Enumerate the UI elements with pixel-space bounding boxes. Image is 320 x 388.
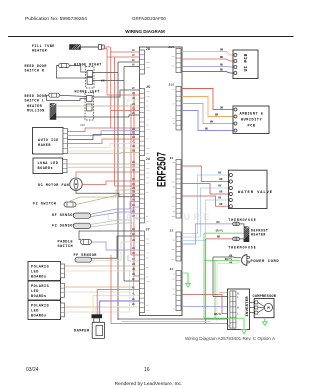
svg-text:BU: BU — [132, 298, 136, 301]
svg-text:WH: WH — [132, 268, 136, 271]
svg-text:LED: LED — [31, 290, 39, 294]
svg-text:M: M — [267, 307, 269, 311]
svg-text:T12: T12 — [172, 195, 175, 198]
svg-text:BR: BR — [215, 113, 219, 116]
svg-text:WH: WH — [132, 64, 136, 67]
svg-text:T12: T12 — [146, 309, 149, 312]
svg-text:LED: LED — [31, 310, 39, 314]
svg-text:WIRING DIAGRAM: WIRING DIAGRAM — [125, 29, 165, 34]
svg-text:OR: OR — [220, 48, 224, 51]
svg-text:GR/YL: GR/YL — [216, 230, 224, 233]
svg-text:16: 16 — [144, 367, 150, 373]
svg-text:BOARDs: BOARDs — [31, 295, 47, 299]
svg-text:RD: RD — [132, 54, 136, 57]
svg-text:YL: YL — [132, 141, 136, 144]
svg-text:MAKER: MAKER — [38, 144, 51, 148]
svg-text:RD: RD — [132, 178, 136, 181]
svg-text:BR: BR — [219, 178, 223, 181]
svg-text:FZ SENSOR: FZ SENSOR — [52, 224, 76, 228]
svg-text:BK: BK — [132, 194, 136, 197]
svg-text:GY: GY — [132, 215, 136, 218]
svg-text:POLARIS: POLARIS — [31, 305, 49, 309]
svg-text:J8: J8 — [146, 47, 150, 51]
svg-text:Wiring Diagram A25783401 Rev.: Wiring Diagram A25783401 Rev. C Option A — [185, 336, 276, 341]
svg-text:DF SENSOR: DF SENSOR — [52, 214, 76, 218]
svg-text:BR: BR — [217, 236, 221, 239]
svg-text:J1: J1 — [170, 268, 174, 271]
svg-text:RD: RD — [132, 273, 136, 276]
svg-text:LED: LED — [31, 271, 39, 275]
svg-text:WH: WH — [132, 239, 136, 242]
svg-text:ERF2507: ERF2507 — [155, 152, 169, 187]
svg-text:BN: BN — [132, 263, 136, 266]
svg-text:BN: BN — [132, 103, 136, 106]
svg-text:RD: RD — [132, 136, 136, 139]
svg-text:WATER VALVE: WATER VALVE — [238, 191, 273, 195]
svg-text:BU: BU — [218, 172, 222, 175]
svg-text:BU: BU — [218, 197, 222, 200]
svg-text:BK: BK — [132, 132, 136, 135]
svg-text:T12: T12 — [146, 109, 149, 112]
svg-text:BN: BN — [132, 187, 136, 190]
svg-text:HEATER: HEATER — [251, 232, 266, 236]
svg-text:MULLION: MULLION — [27, 109, 45, 113]
svg-text:BN: BN — [132, 150, 136, 153]
svg-text:AUTO ICE: AUTO ICE — [38, 139, 59, 143]
svg-text:BU: BU — [205, 127, 209, 130]
svg-text:DC MOTOR FAN: DC MOTOR FAN — [38, 184, 69, 188]
svg-text:BK: BK — [132, 228, 136, 231]
svg-text:RD: RD — [132, 287, 136, 290]
svg-text:AMBIENT &: AMBIENT & — [240, 113, 264, 117]
svg-text:Publication No: 5995739264: Publication No: 5995739264 — [25, 16, 87, 22]
svg-text:J2: J2 — [170, 229, 174, 232]
svg-text:DAMPER: DAMPER — [74, 330, 90, 334]
svg-text:THERMOFUSE: THERMOFUSE — [228, 245, 256, 249]
svg-text:BU: BU — [132, 247, 136, 250]
svg-text:RD: RD — [132, 169, 136, 172]
svg-text:UI PCB: UI PCB — [245, 53, 249, 71]
svg-text:BR: BR — [219, 203, 223, 206]
svg-text:BOARDs: BOARDs — [31, 315, 47, 319]
svg-text:Rendered by LeadVenture, Inc.: Rendered by LeadVenture, Inc. — [115, 381, 183, 387]
svg-text:BOARDs: BOARDs — [38, 167, 54, 171]
svg-text:SWITCH L: SWITCH L — [25, 98, 45, 102]
svg-text:BR: BR — [219, 191, 223, 194]
svg-text:BOARDs: BOARDs — [31, 276, 47, 280]
svg-text:RD: RD — [132, 183, 136, 186]
svg-text:RD: RD — [132, 49, 136, 52]
svg-text:J3: J3 — [170, 157, 174, 160]
svg-text:J14: J14 — [168, 46, 174, 49]
svg-text:THERMOFUSE: THERMOFUSE — [228, 218, 256, 222]
svg-text:HEATER: HEATER — [32, 50, 48, 54]
svg-text:SWITCH R: SWITCH R — [25, 68, 45, 72]
svg-text:FILL TUBE: FILL TUBE — [32, 45, 55, 49]
svg-text:WH: WH — [132, 303, 136, 306]
svg-text:GY: GY — [132, 164, 136, 167]
svg-text:POWER CORD: POWER CORD — [251, 260, 280, 264]
svg-text:BK: BK — [132, 87, 136, 90]
svg-text:J11: J11 — [169, 84, 175, 87]
svg-text:GY: GY — [132, 211, 136, 214]
svg-text:YL: YL — [132, 293, 136, 296]
svg-text:SWITCH: SWITCH — [58, 245, 74, 249]
svg-text:WH: WH — [132, 145, 136, 148]
svg-text:POLARIS: POLARIS — [31, 266, 49, 270]
svg-text:HINGE RIGHT: HINGE RIGHT — [74, 64, 102, 68]
svg-text:T12: T12 — [172, 117, 175, 120]
svg-text:BK: BK — [220, 68, 224, 71]
svg-text:J12: J12 — [80, 124, 85, 127]
svg-text:OR: OR — [220, 106, 224, 109]
svg-text:LUNA LED: LUNA LED — [38, 162, 59, 166]
svg-text:HUMIDITY: HUMIDITY — [241, 119, 263, 123]
svg-text:BU: BU — [218, 185, 222, 188]
svg-text:T12: T12 — [172, 238, 175, 241]
svg-text:RD: RD — [132, 108, 136, 111]
svg-text:BU: BU — [132, 199, 136, 202]
svg-text:PADDLE: PADDLE — [58, 241, 74, 245]
svg-text:RD: RD — [220, 56, 224, 59]
svg-text:PCB: PCB — [248, 125, 256, 129]
svg-text:J5: J5 — [146, 85, 150, 89]
svg-text:BK: BK — [132, 278, 136, 281]
svg-text:BK: BK — [132, 59, 136, 62]
svg-text:BU: BU — [220, 63, 224, 66]
svg-text:BU: BU — [217, 221, 221, 224]
svg-text:RD: RD — [132, 252, 136, 255]
svg-text:BK: BK — [132, 112, 136, 115]
svg-text:INVERTER: INVERTER — [246, 296, 250, 317]
svg-text:GRFN2D23AF00: GRFN2D23AF00 — [132, 16, 166, 21]
svg-text:RD: RD — [132, 92, 136, 95]
svg-text:GY: GY — [132, 258, 136, 261]
svg-text:WH: WH — [101, 80, 105, 83]
svg-text:GR/YL: GR/YL — [214, 313, 222, 316]
svg-text:POLARIS: POLARIS — [31, 285, 49, 289]
svg-text:WH: WH — [132, 97, 136, 100]
svg-text:BU: BU — [132, 204, 136, 207]
svg-text:J4: J4 — [146, 157, 150, 161]
svg-text:BU: BU — [132, 128, 136, 131]
svg-text:J7: J7 — [146, 227, 150, 231]
svg-text:03/24: 03/24 — [26, 367, 39, 373]
svg-text:BK: BK — [132, 233, 136, 236]
svg-text:WH: WH — [210, 120, 214, 123]
svg-text:FZ SWITCH: FZ SWITCH — [33, 202, 56, 206]
svg-text:HINGE LEFT: HINGE LEFT — [75, 91, 100, 95]
